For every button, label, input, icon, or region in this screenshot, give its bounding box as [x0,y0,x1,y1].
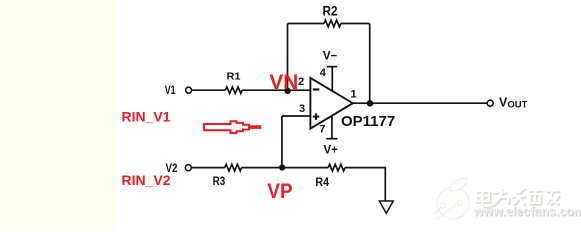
ground symbol [379,201,393,213]
red annotation arrow [204,121,260,133]
svg-text:R4: R4 [315,177,329,189]
svg-text:3: 3 [299,103,305,115]
wire: pin 3 branch vertical down to node VP [281,116,283,168]
power pin 7 wire and V+ supply bar [331,115,333,139]
resistor R4 [328,164,345,171]
power pin 4 wire and V- supply bar [331,67,333,91]
svg-text:RIN_V2: RIN_V2 [122,172,171,188]
resistor R1 [225,87,242,94]
op-amp minus input symbol [313,88,320,90]
watermark chinese brand strokes shadow [477,189,560,208]
wire: R1 to op-amp inverting input (pin 2) [242,89,310,91]
svg-text:www.elecfans.com: www.elecfans.com [473,205,581,219]
svg-text:R2: R2 [323,2,338,18]
svg-text:OP1177: OP1177 [341,113,395,130]
svg-text:V−: V− [323,50,338,62]
output node junction dot [367,100,374,107]
op-amp plus input symbol [313,113,320,120]
svg-text:1: 1 [350,89,356,101]
svg-text:RIN_V1: RIN_V1 [122,109,171,125]
VOUT terminal circle [487,100,493,106]
wire: output from op-amp to VOUT terminal [353,102,487,104]
wire: op-amp pin 3 horizontal [282,115,310,117]
svg-text:V1: V1 [165,85,176,97]
wire: R4 to ground corner [345,168,385,201]
svg-text:R3: R3 [213,176,226,188]
svg-text:4: 4 [320,67,327,79]
watermark logo [434,178,469,220]
svg-text:VN: VN [269,71,298,94]
watermark chinese brand strokes [476,188,559,207]
node VP junction dot [279,164,285,170]
V2 input terminal circle [185,165,191,171]
wire: V2 terminal to R3 [192,167,225,169]
svg-text:V+: V+ [324,145,339,157]
svg-text:2: 2 [298,76,304,88]
wire: V1 terminal to R1 [192,89,225,91]
cream left margin strip [0,0,116,231]
wire: feedback top right segment [341,23,370,25]
resistor R2 [324,20,341,27]
op-amp U1 triangle [310,78,352,129]
wire: feedback top left segment [288,23,325,25]
wire: feedback loop right vertical (R2 down to output node) [369,24,371,104]
svg-text:VOUT: VOUT [499,95,528,110]
V1 input terminal circle [186,87,192,93]
resistor R3 [225,164,242,171]
svg-text:7: 7 [319,124,325,136]
wire: R3 to node VP [242,167,329,169]
wire: feedback loop left vertical (node VN up to R2) [192,20,487,201]
svg-text:VP: VP [267,180,292,203]
svg-text:R1: R1 [227,71,241,83]
node VN junction dot [284,88,290,94]
